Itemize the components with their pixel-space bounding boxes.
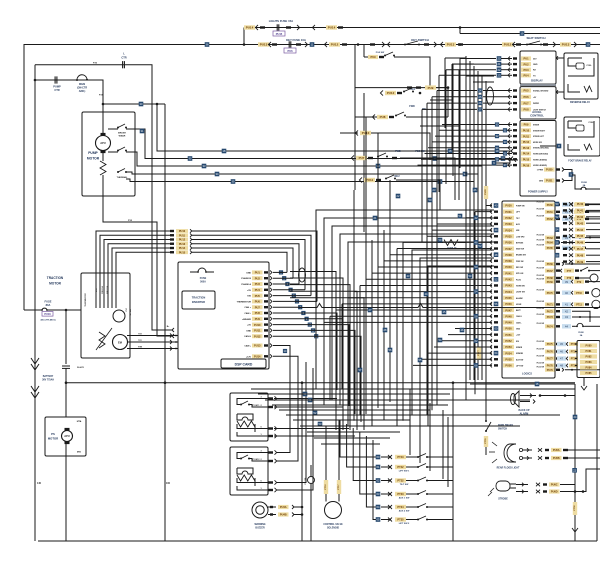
- svg-text:PU3: PU3: [523, 68, 529, 72]
- svg-text:PU31: PU31: [505, 211, 512, 214]
- svg-text:PU37: PU37: [505, 248, 512, 251]
- svg-text:FUSE: FUSE: [45, 300, 52, 304]
- svg-text:LIFT SW 2: LIFT SW 2: [399, 523, 410, 525]
- svg-text:H/M: H/M: [516, 230, 520, 232]
- svg-text:PLUG SW: PLUG SW: [537, 234, 545, 236]
- svg-text:PUMP: PUMP: [88, 151, 98, 155]
- svg-text:PU36: PU36: [505, 242, 512, 245]
- svg-text:PHASE A: PHASE A: [241, 283, 251, 286]
- svg-text:PU9: PU9: [370, 55, 376, 59]
- pump motor M1: [82, 112, 135, 196]
- svg-text:PLUG SW: PLUG SW: [537, 275, 545, 277]
- svg-text:PU6A: PU6A: [553, 449, 560, 452]
- svg-text:PT10: PT10: [576, 292, 582, 295]
- svg-text:HORN SW: HORN SW: [516, 285, 525, 287]
- svg-text:PU15: PU15: [179, 251, 186, 254]
- svg-text:PT35: PT35: [397, 518, 404, 522]
- wire: [470, 383, 575, 385]
- svg-text:PLUG SW: PLUG SW: [537, 209, 545, 211]
- wire right vertical bundle: [465, 56, 467, 380]
- svg-text:PU60: PU60: [547, 204, 554, 207]
- svg-text:AUX SW: AUX SW: [516, 358, 523, 361]
- wire: [164, 104, 166, 541]
- wire L CTR branch: [34, 65, 36, 80]
- svg-text:APU: APU: [100, 141, 106, 145]
- svg-text:PU14: PU14: [254, 355, 261, 359]
- svg-text:4P 12V: 4P 12V: [129, 308, 132, 315]
- svg-text:CONTROL VALVE: CONTROL VALVE: [323, 523, 343, 526]
- svg-text:PU49: PU49: [577, 261, 584, 264]
- svg-text:PT16: PT16: [325, 484, 327, 490]
- svg-text:STEER RIGHT: STEER RIGHT: [533, 130, 546, 132]
- svg-text:PU11: PU11: [179, 234, 186, 237]
- svg-text:ALARM: ALARM: [516, 297, 523, 300]
- svg-text:PT32: PT32: [397, 479, 404, 483]
- svg-text:+5V: +5V: [247, 290, 251, 292]
- svg-text:PLUG SW: PLUG SW: [537, 362, 545, 364]
- svg-text:PU4: PU4: [523, 74, 529, 78]
- svg-text:WEAR: WEAR: [119, 135, 126, 138]
- svg-text:LIGHT SWITCH: LIGHT SWITCH: [533, 109, 547, 111]
- wire nest elbows from right: [316, 210, 494, 389]
- svg-text:CAN L: CAN L: [244, 312, 251, 315]
- svg-text:PU40: PU40: [577, 203, 584, 206]
- wire: [573, 502, 577, 515]
- svg-text:PU12: PU12: [523, 141, 530, 144]
- svg-text:SIGNAL GROUND: SIGNAL GROUND: [533, 90, 549, 93]
- capacitor L CTR: [35, 65, 172, 330]
- svg-text:LOW SPD: LOW SPD: [516, 236, 525, 238]
- svg-text:PU66: PU66: [547, 263, 554, 266]
- wire nest verticals: [353, 190, 355, 420]
- wire box2 out: [583, 378, 585, 387]
- logics module: [502, 201, 555, 378]
- svg-text:BATTERY: BATTERY: [43, 375, 54, 378]
- svg-text:PHASE B: PHASE B: [241, 277, 251, 280]
- svg-text:MODE SW: MODE SW: [533, 142, 542, 144]
- svg-text:PU45: PU45: [505, 297, 512, 300]
- svg-text:PU21: PU21: [546, 179, 553, 183]
- svg-text:PLUG SW: PLUG SW: [537, 267, 545, 269]
- svg-text:PU80: PU80: [586, 345, 593, 348]
- wire bus jump: [300, 304, 600, 308]
- svg-text:HORN LEGEND): HORN LEGEND): [533, 165, 547, 167]
- wire com2 lower feeds: [277, 362, 306, 483]
- svg-text:PU12: PU12: [254, 334, 261, 338]
- svg-text:PU46: PU46: [577, 242, 584, 245]
- svg-text:PU8: PU8: [523, 108, 529, 112]
- thermal switch: [117, 171, 119, 173]
- svg-text:+12V: +12V: [246, 356, 252, 358]
- svg-text:PLUG SW: PLUG SW: [537, 216, 545, 218]
- svg-text:REV SW: REV SW: [516, 267, 523, 269]
- svg-text:PU39: PU39: [505, 260, 512, 263]
- wire pump motor bottom: [103, 196, 172, 336]
- svg-text:PLUG SW: PLUG SW: [537, 261, 545, 263]
- switch brush wear: [108, 128, 118, 130]
- svg-text:CTR: CTR: [121, 56, 126, 60]
- svg-text:HORN (GROUND): HORN (GROUND): [533, 154, 548, 156]
- connector rows right: [555, 202, 560, 207]
- accel control module: [520, 87, 556, 119]
- svg-text:SEAT SW: SEAT SW: [516, 248, 524, 251]
- svg-text:CONTROL: CONTROL: [530, 114, 544, 118]
- svg-text:PU13: PU13: [260, 43, 268, 47]
- svg-text:CAN L: CAN L: [516, 321, 522, 324]
- svg-text:GND: GND: [246, 272, 251, 274]
- svg-text:PU9: PU9: [428, 86, 434, 90]
- svg-text:PU11: PU11: [366, 178, 374, 182]
- svg-text:CAN L: CAN L: [244, 345, 251, 348]
- svg-text:PU47: PU47: [505, 309, 512, 312]
- svg-text:COIL: COIL: [588, 122, 594, 124]
- wire: [38, 540, 597, 542]
- svg-text:PU64: PU64: [547, 242, 554, 245]
- fu small: [308, 477, 315, 484]
- svg-text:PU45: PU45: [577, 235, 584, 238]
- svg-text:PU11: PU11: [254, 329, 261, 333]
- svg-text:PU78: PU78: [547, 365, 554, 368]
- svg-text:PU14: PU14: [328, 26, 336, 30]
- svg-text:DSP CARD: DSP CARD: [235, 362, 253, 366]
- svg-text:100: 100: [166, 482, 171, 485]
- svg-text:PT9: PT9: [577, 281, 582, 284]
- svg-text:PU32: PU32: [505, 217, 512, 220]
- svg-text:FU 10A: FU 10A: [304, 477, 307, 484]
- svg-text:FOOT BRAKE RELAY: FOOT BRAKE RELAY: [568, 160, 592, 163]
- svg-text:PU46: PU46: [505, 303, 512, 306]
- svg-text:PU12: PU12: [387, 91, 395, 95]
- svg-text:PLUG SW: PLUG SW: [537, 290, 545, 292]
- svg-text:PU49: PU49: [505, 322, 512, 325]
- svg-text:T/U: T/U: [138, 334, 142, 336]
- connector box right bottom: [577, 341, 600, 378]
- svg-text:PU81: PU81: [586, 350, 593, 353]
- com connector J2: [230, 447, 268, 495]
- svg-text:PU61: PU61: [547, 211, 554, 214]
- svg-text:PU14: PU14: [179, 247, 186, 250]
- wire short verticals: [444, 58, 446, 128]
- wire: [354, 189, 356, 191]
- svg-text:PU62: PU62: [547, 218, 554, 221]
- svg-text:PU73: PU73: [547, 316, 554, 319]
- svg-text:MIO: MIO: [77, 452, 81, 454]
- wire staircase right: [409, 389, 411, 455]
- coil field: [99, 332, 105, 348]
- wire: [596, 384, 598, 541]
- svg-text:PLUG SW: PLUG SW: [537, 239, 545, 241]
- svg-text:PU13: PU13: [562, 43, 570, 47]
- svg-text:PT42: PT42: [397, 465, 404, 469]
- svg-text:GND: GND: [533, 64, 538, 66]
- warning buzzer: [252, 502, 268, 518]
- motor EM: [113, 335, 128, 350]
- svg-text:PS: PS: [51, 432, 55, 436]
- wire stack elbows: [192, 231, 317, 301]
- svg-text:PU34: PU34: [505, 229, 512, 232]
- label rotated x486: [484, 186, 488, 199]
- svg-text:PU53: PU53: [505, 346, 512, 349]
- svg-text:500A: 500A: [200, 280, 206, 283]
- svg-text:APU: APU: [64, 434, 70, 438]
- svg-text:PU9: PU9: [255, 317, 261, 321]
- svg-text:PU7: PU7: [523, 101, 529, 105]
- svg-text:THERMISTOR: THERMISTOR: [237, 301, 252, 303]
- reverse relay K1: [556, 57, 564, 59]
- svg-text:SPD LIM: SPD LIM: [516, 273, 524, 275]
- svg-text:PU13: PU13: [447, 43, 455, 47]
- svg-text:PU79: PU79: [547, 369, 554, 372]
- svg-text:FWD: FWD: [395, 150, 401, 153]
- svg-text:PU56: PU56: [505, 365, 512, 368]
- svg-text:PT34: PT34: [397, 505, 404, 509]
- svg-text:PU11: PU11: [523, 135, 530, 138]
- svg-text:CAN H: CAN H: [244, 335, 251, 338]
- svg-text:PU12: PU12: [504, 43, 512, 47]
- svg-text:140: 140: [37, 482, 42, 485]
- switch fwd: [355, 87, 448, 89]
- svg-text:LIGHT SW: LIGHT SW: [516, 292, 525, 294]
- strobe light: [496, 481, 510, 491]
- control valve solenoid: [325, 502, 342, 519]
- svg-text:PU30: PU30: [505, 205, 512, 208]
- wire nest horizontals to right column: [290, 272, 336, 431]
- svg-text:PU4: PU4: [255, 288, 261, 292]
- svg-text:KEY SWITCH: KEY SWITCH: [411, 38, 429, 42]
- svg-text:BRUSH: BRUSH: [118, 133, 126, 135]
- svg-text:PLUG SW: PLUG SW: [537, 308, 545, 310]
- svg-text:PU15: PU15: [523, 159, 530, 162]
- svg-text:FWD: FWD: [409, 105, 415, 108]
- cable oval accel: [487, 87, 494, 105]
- node battery bus: [65, 381, 68, 384]
- svg-text:EM: EM: [118, 340, 122, 344]
- svg-text:GND: GND: [246, 330, 251, 332]
- svg-text:STEER LEFT: STEER LEFT: [533, 136, 545, 138]
- dsp connector stack: [176, 229, 188, 233]
- svg-text:PLUG SW: PLUG SW: [537, 314, 545, 316]
- svg-text:FG2 SW: FG2 SW: [376, 52, 385, 54]
- svg-text:WIPER: WIPER: [533, 103, 540, 105]
- park brake switch: [485, 384, 487, 421]
- svg-text:2A: 2A: [583, 184, 586, 187]
- svg-text:AUX 2 SW: AUX 2 SW: [399, 510, 411, 513]
- svg-text:PU12: PU12: [179, 239, 186, 242]
- wire: [557, 144, 562, 149]
- svg-text:PU48: PU48: [577, 254, 584, 257]
- svg-text:PU77: PU77: [547, 358, 554, 361]
- svg-text:STEER: STEER: [533, 125, 540, 127]
- svg-text:HORN LEGEND): HORN LEGEND): [533, 159, 547, 161]
- svg-text:CAN +: CAN +: [244, 306, 251, 309]
- svg-text:PT05: PT05: [485, 438, 487, 444]
- svg-text:LOGICS: LOGICS: [522, 372, 532, 376]
- fuse 500A: [196, 268, 208, 272]
- svg-text:PU82: PU82: [586, 356, 593, 359]
- traction inverter U1: [178, 262, 269, 369]
- wire: [65, 444, 67, 541]
- wire bundle top elbows: [445, 57, 466, 59]
- svg-text:PU6: PU6: [523, 95, 529, 99]
- svg-text:PU65: PU65: [547, 247, 554, 250]
- svg-text:PT06: PT06: [574, 505, 576, 511]
- svg-text:PU30: PU30: [485, 188, 487, 194]
- svg-text:PU33: PU33: [505, 223, 512, 226]
- svg-text:PU42: PU42: [577, 216, 584, 219]
- svg-text:PU13: PU13: [523, 147, 530, 150]
- svg-text:PU7: PU7: [359, 156, 365, 160]
- svg-text:PLUG SW: PLUG SW: [537, 201, 545, 203]
- svg-text:1 PRW: 1 PRW: [537, 170, 543, 172]
- svg-text:PU6: PU6: [255, 300, 261, 304]
- svg-text:PT33: PT33: [397, 492, 404, 496]
- svg-text:PU42: PU42: [505, 279, 512, 282]
- svg-text:PU14: PU14: [246, 26, 254, 30]
- svg-text:REAR FLOOD LIGHT: REAR FLOOD LIGHT: [497, 467, 520, 470]
- svg-text:CTR: CTR: [54, 88, 59, 92]
- svg-text:PU3: PU3: [255, 282, 261, 286]
- fuse 2A: [572, 175, 579, 189]
- svg-text:PLUG: PLUG: [516, 279, 522, 281]
- svg-text:INVERTER: INVERTER: [192, 300, 205, 304]
- svg-text:PU16: PU16: [523, 164, 530, 167]
- svg-text:MOTOR: MOTOR: [87, 157, 100, 161]
- svg-text:KSI: KSI: [247, 296, 251, 298]
- svg-text:GND: GND: [516, 329, 521, 331]
- svg-text:PU41: PU41: [505, 272, 512, 275]
- svg-text:PU9: PU9: [524, 124, 529, 127]
- wire dsp pin rows: [279, 270, 283, 274]
- svg-text:BUZZER: BUZZER: [255, 528, 265, 530]
- lift tilt aux switches: [340, 420, 376, 457]
- wire: [24, 45, 600, 311]
- svg-text:PU5: PU5: [523, 89, 529, 93]
- back up alarm: [514, 391, 519, 407]
- svg-text:TRACTION: TRACTION: [47, 276, 64, 280]
- battery: [31, 358, 39, 370]
- svg-text:PU38: PU38: [505, 254, 512, 257]
- wire: [96, 231, 172, 308]
- svg-text:+5V: +5V: [247, 325, 251, 327]
- foot brake relay K2: [564, 117, 600, 156]
- svg-text:PU74: PU74: [547, 326, 554, 329]
- svg-text:PU8: PU8: [380, 115, 386, 119]
- svg-text:TILT SW: TILT SW: [400, 484, 410, 486]
- capacitor filter: [65, 310, 67, 364]
- wire com1 feeds: [274, 398, 337, 400]
- svg-text:PLUG SW: PLUG SW: [537, 278, 545, 280]
- switch pump sw2: [108, 151, 118, 153]
- svg-text:PU40: PU40: [505, 266, 512, 269]
- svg-text:PLUG SW: PLUG SW: [537, 367, 545, 369]
- svg-text:KSI: KSI: [516, 341, 519, 343]
- svg-text:PU50: PU50: [505, 328, 512, 331]
- wire mid blue squares: [406, 274, 411, 279]
- motor EM small: [113, 310, 125, 322]
- svg-text:BRAKE SW: BRAKE SW: [516, 254, 526, 257]
- svg-text:LIFT SW: LIFT SW: [516, 365, 523, 367]
- svg-text:PT43: PT43: [397, 455, 404, 459]
- wire: [360, 131, 371, 135]
- svg-text:PU48: PU48: [505, 315, 512, 318]
- power supply module: [520, 121, 556, 197]
- svg-text:PU16: PU16: [44, 313, 51, 316]
- svg-text:PT11: PT11: [576, 304, 582, 307]
- svg-text:36V 775AH: 36V 775AH: [42, 378, 54, 381]
- svg-text:DISPLAY: DISPLAY: [531, 79, 543, 83]
- capacitor pump ctr: [34, 79, 37, 82]
- svg-text:PU6: PU6: [287, 49, 293, 53]
- wire: [459, 28, 461, 34]
- wire bottom bus bundle: [251, 388, 575, 390]
- svg-text:PU43: PU43: [577, 222, 584, 225]
- svg-text:PU10: PU10: [523, 130, 530, 133]
- svg-text:PU67: PU67: [547, 270, 554, 273]
- svg-text:PU54: PU54: [505, 352, 512, 355]
- svg-text:PU72: PU72: [547, 310, 554, 313]
- svg-text:REVERSE RELAY: REVERSE RELAY: [570, 101, 590, 104]
- svg-text:PU69: PU69: [547, 281, 554, 284]
- svg-text:PU35: PU35: [505, 235, 512, 238]
- svg-text:PUMP SW: PUMP SW: [516, 206, 525, 208]
- svg-text:THERMISTOR: THERMISTOR: [85, 293, 87, 307]
- svg-text:PU13: PU13: [254, 344, 261, 348]
- wire: [354, 45, 356, 191]
- svg-text:PU12: PU12: [331, 43, 339, 47]
- svg-text:STEER (GROUND): STEER (GROUND): [533, 148, 549, 150]
- svg-text:PU63: PU63: [547, 237, 554, 240]
- svg-text:LIFT SW 1: LIFT SW 1: [399, 471, 410, 473]
- svg-text:PT7: PT7: [567, 270, 572, 273]
- svg-text:PU43: PU43: [505, 285, 512, 288]
- svg-text:T/V: T/V: [138, 340, 142, 342]
- svg-text:PT17: PT17: [338, 484, 340, 490]
- svg-text:PU71: PU71: [547, 304, 554, 307]
- svg-text:PU1: PU1: [255, 271, 261, 275]
- svg-text:PU2: PU2: [255, 276, 261, 280]
- wire: [34, 80, 36, 541]
- svg-text:PU10: PU10: [179, 230, 186, 233]
- wire: [205, 42, 210, 47]
- svg-text:COIL: COIL: [586, 65, 592, 67]
- svg-text:PU83: PU83: [586, 361, 593, 364]
- svg-text:PU1: PU1: [523, 57, 529, 61]
- svg-text:SWITCH: SWITCH: [498, 429, 507, 431]
- svg-text:PLUG SW: PLUG SW: [537, 355, 545, 357]
- svg-text:+BRAKE: +BRAKE: [242, 318, 252, 321]
- svg-text:PUMP: PUMP: [53, 85, 61, 89]
- svg-text:PU85: PU85: [586, 372, 593, 375]
- svg-text:PU8: PU8: [255, 311, 261, 315]
- svg-text:MOTOR: MOTOR: [49, 282, 62, 286]
- svg-text:FUSE: FUSE: [581, 182, 587, 184]
- svg-text:AUX 1 SW: AUX 1 SW: [399, 497, 411, 500]
- svg-text:PLUG SW: PLUG SW: [537, 245, 545, 247]
- svg-text:PU20: PU20: [546, 168, 553, 172]
- label rotated x479: [477, 347, 481, 360]
- svg-text:PU44: PU44: [505, 291, 512, 294]
- svg-text:PU70: PU70: [547, 292, 554, 295]
- cable oval: [299, 268, 306, 282]
- wire T/U T/V T/W: [127, 335, 178, 337]
- svg-text:GPA: GPA: [539, 180, 544, 183]
- wire ps jog: [494, 160, 518, 163]
- svg-text:PLUG SW: PLUG SW: [537, 348, 545, 350]
- svg-text:PU4B: PU4B: [280, 514, 287, 517]
- svg-text:TRACTION: TRACTION: [192, 296, 206, 300]
- wire bottom extra rows: [307, 431, 400, 433]
- svg-text:PU44: PU44: [577, 229, 584, 232]
